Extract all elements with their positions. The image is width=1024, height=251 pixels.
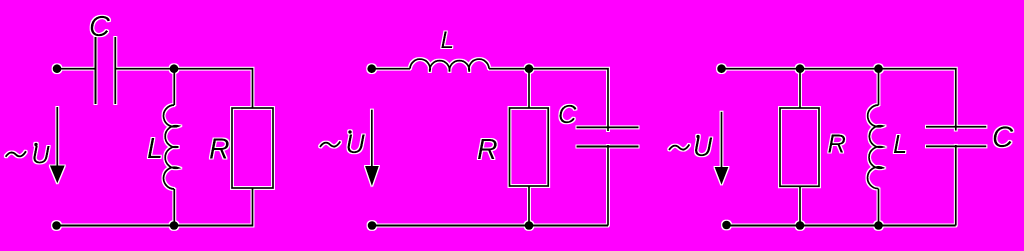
inductor L2 coil (410, 59, 489, 72)
wire terminal to inductor L2 (372, 68, 410, 70)
wire bottom rail circuit 1 with R1 bottom lead (57, 188, 253, 226)
wire top rail circuit 3 to corner and down to capacitor C3 (722, 69, 956, 131)
label ~ circuit 3 (669, 144, 689, 150)
voltage arrow circuit 2 (371, 110, 373, 170)
node junction bottom R circuit 3 (796, 221, 805, 230)
node junction top circuit 1 (170, 64, 179, 73)
wire junction down to resistor R3 (799, 69, 801, 108)
svg-text:L: L (893, 131, 907, 159)
svg-text:C: C (558, 101, 577, 129)
wire bottom rail circuit 3 with R3 bottom lead (727, 186, 956, 225)
node junction top circuit 2 (525, 64, 534, 73)
inductor L3 coil (868, 105, 883, 189)
wire capacitor to top-right corner and down to resistor R1 (115, 69, 252, 108)
svg-text:L: L (441, 27, 455, 54)
label ~ circuit 2 (320, 141, 340, 147)
capacitor C2 plates (577, 127, 639, 146)
svg-text:U: U (346, 129, 366, 159)
wire top-left to capacitor C1 (57, 68, 96, 70)
wire coil to junction to corner and down to capacitor C2 (489, 69, 608, 131)
node junction top R circuit 3 (796, 64, 805, 73)
wire bottom rail circuit 2 with R2 bottom lead (372, 186, 608, 226)
wire coil bottom lead circuit 3 (878, 189, 880, 226)
svg-text:R: R (828, 130, 846, 158)
node terminal top-left circuit 2 (367, 64, 376, 73)
svg-text:R: R (477, 134, 498, 166)
node junction bottom L circuit 3 (874, 221, 883, 230)
node terminal bottom-left circuit 2 (368, 221, 377, 230)
voltage arrow circuit 3 (721, 112, 723, 170)
resistor R1 body (232, 108, 273, 188)
node terminal top-left circuit 1 (53, 64, 62, 73)
resistor R3 body (780, 108, 819, 186)
wire capacitor C2 bottom lead (607, 145, 609, 226)
inductor L1 coil (164, 105, 179, 189)
svg-text:C: C (89, 11, 111, 43)
wire junction down to resistor R2 (528, 69, 530, 108)
svg-text:U: U (32, 142, 51, 170)
label ~ circuit 1 (6, 151, 26, 157)
wire capacitor C3 bottom lead (955, 145, 957, 226)
capacitor C1 plates (96, 37, 116, 104)
wire junction down to inductor L3 (878, 69, 880, 105)
node terminal bottom-left circuit 3 (722, 221, 731, 230)
svg-text:L: L (147, 133, 163, 165)
svg-text:C: C (992, 121, 1014, 154)
svg-text:R: R (209, 134, 230, 166)
voltage arrow circuit 1 (56, 107, 58, 170)
wire coil bottom to rail (173, 189, 175, 226)
svg-text:U: U (693, 132, 713, 162)
node terminal top-left circuit 3 (717, 64, 726, 73)
wire junction down to inductor L1 (173, 69, 175, 105)
node junction bottom circuit 1 (170, 221, 179, 230)
resistor R2 body (510, 108, 549, 186)
node terminal bottom-left circuit 1 (52, 221, 61, 230)
capacitor C3 plates (926, 127, 986, 147)
node junction top L circuit 3 (874, 64, 883, 73)
node junction bottom circuit 2 (525, 221, 534, 230)
